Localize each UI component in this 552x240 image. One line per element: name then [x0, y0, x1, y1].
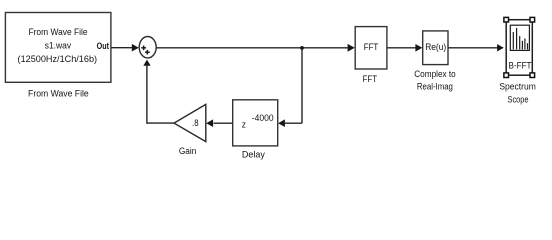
svg-text:B-FFT: B-FFT	[509, 60, 532, 71]
svg-text:Complex to: Complex to	[414, 69, 456, 80]
svg-text:FFT: FFT	[364, 42, 379, 53]
svg-text:Scope: Scope	[508, 94, 529, 105]
svg-text:Real-Imag: Real-Imag	[417, 81, 453, 92]
svg-text:From Wave File: From Wave File	[29, 27, 88, 38]
svg-text:.8: .8	[192, 118, 199, 129]
svg-text:z: z	[242, 120, 246, 131]
svg-text:Delay: Delay	[242, 150, 265, 161]
svg-text:From Wave File: From Wave File	[28, 88, 89, 99]
svg-text:Re(u): Re(u)	[425, 42, 446, 53]
svg-text:FFT: FFT	[363, 74, 378, 85]
svg-text:Out: Out	[97, 41, 109, 51]
svg-text:Gain: Gain	[179, 146, 197, 157]
svg-text:(12500Hz/1Ch/16b): (12500Hz/1Ch/16b)	[18, 54, 98, 65]
svg-text:Spectrum: Spectrum	[499, 81, 536, 92]
svg-text:s1.wav: s1.wav	[45, 41, 72, 52]
svg-text:-4000: -4000	[252, 113, 274, 124]
